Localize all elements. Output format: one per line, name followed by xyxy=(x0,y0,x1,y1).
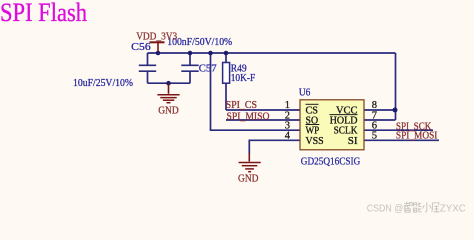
svg-text:10K-F: 10K-F xyxy=(231,72,256,84)
svg-text:U6: U6 xyxy=(299,87,311,99)
svg-text:4: 4 xyxy=(285,131,291,142)
svg-text:SPI Flash: SPI Flash xyxy=(0,0,87,27)
svg-text:5: 5 xyxy=(372,131,377,142)
svg-text:VDD_3V3: VDD_3V3 xyxy=(136,31,177,43)
svg-text:GND: GND xyxy=(238,172,259,184)
svg-text:C57: C57 xyxy=(199,62,217,74)
svg-text:SPI_CS: SPI_CS xyxy=(226,100,258,111)
svg-text:SI: SI xyxy=(348,135,358,147)
svg-text:SPI_MISO: SPI_MISO xyxy=(227,111,270,122)
svg-text:10uF/25V/10%: 10uF/25V/10% xyxy=(73,77,133,89)
svg-text:ZYXC: ZYXC xyxy=(440,204,466,215)
svg-text:C56: C56 xyxy=(131,41,151,53)
svg-text:VSS: VSS xyxy=(306,135,324,147)
svg-text:GD25Q16CSIG: GD25Q16CSIG xyxy=(301,156,361,168)
svg-text:SPI_MOSI: SPI_MOSI xyxy=(396,131,438,142)
svg-text:CSDN @: CSDN @ xyxy=(367,204,404,215)
svg-text:GND: GND xyxy=(158,105,179,117)
